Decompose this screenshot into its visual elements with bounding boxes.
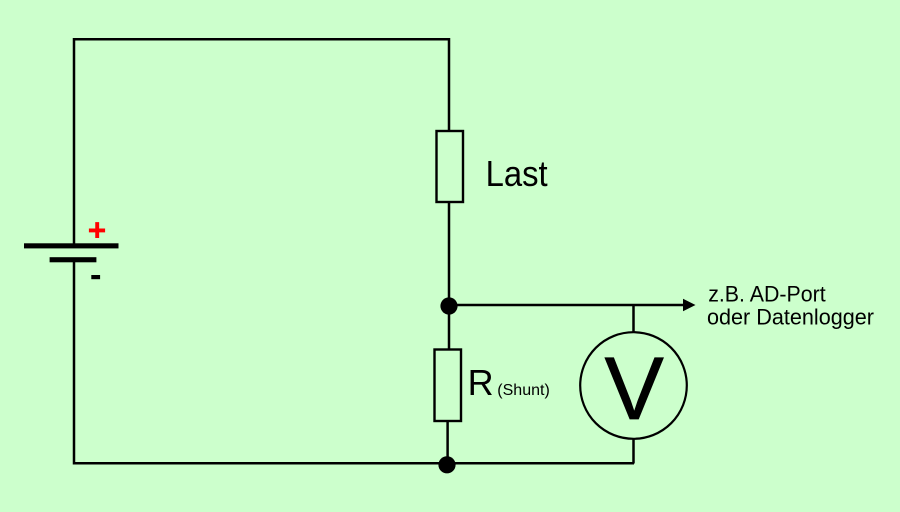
svg-text:R: R: [468, 362, 494, 403]
svg-text:V: V: [605, 338, 664, 438]
svg-text:(Shunt): (Shunt): [497, 382, 549, 399]
svg-text:oder Datenlogger: oder Datenlogger: [707, 305, 874, 330]
svg-text:z.B. AD-Port: z.B. AD-Port: [708, 281, 826, 306]
svg-text:Last: Last: [486, 153, 548, 194]
